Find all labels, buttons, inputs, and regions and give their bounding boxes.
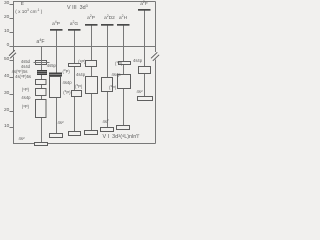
box a4P 4s4p tall	[50, 77, 61, 98]
box a2D2 4s4p tall	[102, 78, 113, 92]
tick 30 bottom	[10, 94, 14, 96]
box 4s4p(3P) tall	[36, 100, 47, 118]
label (3P) left of a2D2 box	[75, 85, 82, 89]
tick 10 bottom	[10, 127, 14, 129]
axis label 50 bottom	[0, 58, 9, 63]
level a2G	[68, 29, 81, 31]
label a2D2	[102, 17, 117, 22]
right border	[155, 2, 157, 144]
label 4s2 above a2D2 bar	[103, 120, 109, 124]
label a2H	[115, 17, 131, 22]
label 4s5p	[47, 64, 56, 68]
box 4s5d	[36, 61, 47, 65]
axis label 30 bottom	[0, 92, 9, 97]
y-axis break	[9, 50, 16, 58]
label (3P) left of a2G box	[56, 91, 71, 95]
label 4s4p above a2F box	[133, 59, 142, 63]
ground bar 4s2 series 4F	[35, 143, 48, 146]
header V III 3d3	[67, 6, 88, 11]
level a4F zero line	[14, 46, 156, 48]
axis label 40 bottom	[0, 75, 9, 80]
tick 50 bottom	[10, 60, 14, 62]
box a2F 4s4p	[139, 67, 151, 74]
box a2P 4s4p tall	[86, 77, 98, 94]
box a4P cap filled	[49, 73, 62, 77]
caption V I	[103, 135, 140, 140]
box 4s4d filled	[37, 70, 47, 75]
label (1P) left of a2H thin box	[115, 62, 122, 66]
label 4s4p left of a2P tall box	[76, 73, 85, 77]
box 4s4p(1P)	[36, 89, 47, 96]
label 4s4d	[10, 65, 30, 69]
axis title units	[15, 10, 42, 15]
label (3P) between tall boxes	[109, 86, 116, 90]
axis label 20 top	[0, 16, 9, 21]
tick 20 top	[10, 18, 14, 20]
right axis break	[151, 52, 159, 61]
ground bar a2F 4s2	[138, 97, 153, 101]
wire through 4s5d box	[41, 61, 43, 65]
level a2D2	[101, 24, 114, 26]
label (1P) left of a2P box	[72, 60, 86, 64]
level a2F	[138, 9, 151, 11]
level a2H	[117, 24, 130, 26]
axis title E	[21, 3, 24, 8]
label (3P) right of a4P cap	[63, 70, 70, 74]
box a2H 4s4p tall	[118, 75, 131, 89]
label a4P	[48, 23, 64, 28]
series line a2G	[74, 31, 76, 132]
tick 40 bottom	[10, 77, 14, 79]
series line a2P	[91, 26, 93, 131]
label 4s2 above a2F bar	[137, 90, 143, 94]
label 4s(5F)5s	[4, 70, 28, 74]
ground bar a2P 4s2	[85, 131, 98, 135]
axis label 20 bottom	[0, 109, 9, 114]
label (1P) left	[9, 88, 29, 92]
series line a2D2	[107, 26, 109, 128]
label 4s5d	[10, 60, 30, 64]
ground bar a4P 4s2	[50, 134, 63, 138]
label (3P) left	[9, 105, 29, 109]
y-axis	[13, 2, 15, 144]
label 4s(3F)5s	[5, 75, 31, 79]
axis label 10 top	[0, 30, 9, 35]
tick 30 top	[10, 4, 14, 6]
tick 0 top	[10, 46, 14, 48]
label 4s4p left	[10, 96, 31, 100]
box a2G thin	[69, 64, 81, 67]
label a2P	[83, 17, 99, 22]
box a2G (3P)	[72, 91, 82, 97]
series line a2H	[123, 26, 125, 126]
box a2P (1P)	[86, 61, 97, 67]
label a2G	[66, 23, 82, 28]
label 4s2 bottom left	[19, 137, 25, 141]
level a4P	[50, 29, 63, 31]
label 4s4p left of a2H tall box	[112, 73, 121, 77]
axis label 30 top	[0, 2, 9, 7]
tick 10 top	[10, 32, 14, 34]
axis label 0 top	[0, 44, 9, 49]
series line a2F	[144, 11, 146, 97]
bottom border	[13, 143, 156, 145]
box 4s(3F)5s	[36, 80, 47, 85]
ground bar a2G 4s2	[69, 132, 81, 136]
top border	[13, 1, 156, 3]
ground bar a2H 4s2	[117, 126, 130, 130]
tick 20 bottom	[10, 111, 14, 113]
label a2F	[136, 3, 152, 8]
series line 4F limit	[41, 47, 43, 143]
label 4s2 above a4P bar	[58, 121, 64, 125]
stripe in 4s4d box	[37, 72, 46, 74]
label a4F	[33, 40, 49, 45]
level a2P	[85, 24, 98, 26]
label 4s4p right of a4P box	[63, 81, 72, 85]
box a2H thin	[119, 62, 131, 65]
level line through 4s5d box	[34, 62, 50, 64]
stripe in a4P cap	[49, 73, 61, 75]
axis label 10 bottom	[0, 125, 9, 130]
ground bar a2D2 4s2	[101, 128, 114, 132]
series line a4P	[56, 31, 58, 134]
